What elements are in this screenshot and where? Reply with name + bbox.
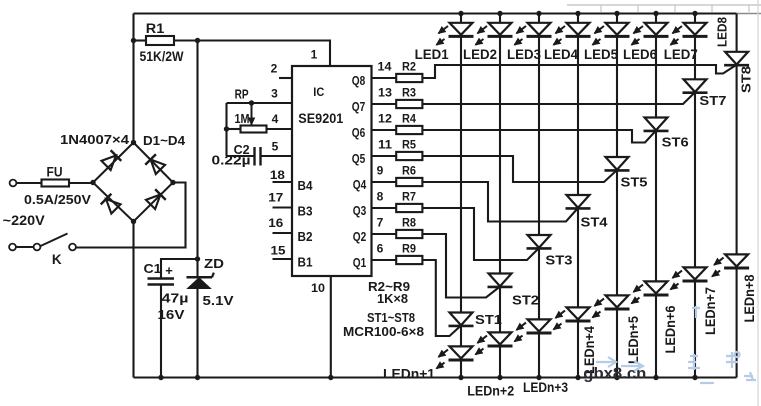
svg-text:RP: RP [235, 88, 249, 102]
svg-text:LED4: LED4 [544, 47, 578, 62]
junction dot bridge left vertex [90, 180, 95, 185]
junction dot bridge top vertex [131, 140, 136, 145]
wire LEDn+1 cathode to ground rail [460, 360, 462, 378]
svg-text:R5: R5 [402, 138, 416, 152]
svg-text:ST5: ST5 [621, 175, 648, 190]
junction dot ground rail LEDn+4 [575, 375, 580, 380]
junction dot ground rail LEDn+6 [653, 375, 658, 380]
wire R3 to ST7 gate [422, 92, 695, 104]
svg-text:6: 6 [377, 242, 384, 256]
wire left border to R1 [134, 39, 147, 41]
svg-text:gbx8.cn: gbx8.cn [583, 366, 646, 383]
fuse FU [42, 182, 94, 184]
wire R4 to ST6 gate [422, 130, 656, 143]
svg-text:2: 2 [271, 61, 278, 75]
svg-text:7: 7 [377, 216, 384, 230]
wire LED6 cathode down to ST6 [655, 36, 657, 117]
wire ST3 cathode down to LEDn+3 [538, 248, 540, 319]
wire bridge bottom vertex to ground rail [132, 222, 134, 378]
wire R2 to ST8 gate [422, 65, 736, 78]
wire between switch terminals [16, 246, 34, 248]
svg-text:B4: B4 [298, 179, 313, 193]
thyristor ST8 [725, 52, 748, 65]
LED LED5 [606, 23, 629, 35]
junction dot ZD ground [195, 375, 200, 380]
svg-text:Q3: Q3 [353, 204, 367, 218]
wire LED1 anode lead [460, 14, 462, 23]
wire supply node down to ZD [196, 41, 198, 278]
wire R1 to supply node [174, 39, 198, 41]
resistor R4 [396, 126, 422, 134]
wire pin 5 row C2 to IC [261, 155, 293, 157]
wire R6 to ST4 gate [422, 182, 578, 222]
svg-text:12: 12 [378, 112, 392, 126]
wire top positive rail [134, 12, 737, 14]
wire LED5 cathode down to ST5 [616, 36, 618, 157]
zener diode ZD [188, 278, 211, 289]
svg-text:ZD: ZD [204, 256, 224, 271]
svg-text:C1: C1 [144, 261, 162, 276]
pin 6 stub to R9 [372, 259, 397, 261]
svg-text:ST6: ST6 [662, 135, 689, 150]
junction dot ground rail LEDn+5 [614, 375, 619, 380]
junction dot C1 ground [158, 375, 163, 380]
svg-text:LED6: LED6 [623, 47, 657, 62]
diode D4 (bridge lower-right) [146, 195, 160, 209]
svg-text:17: 17 [268, 190, 283, 204]
svg-text:LEDn+2: LEDn+2 [467, 384, 514, 399]
wire R8 to ST2 gate [422, 234, 500, 298]
svg-text:1: 1 [311, 48, 318, 62]
svg-text:LEDn+7: LEDn+7 [703, 287, 718, 335]
svg-text:LED7: LED7 [664, 47, 698, 62]
resistor R1 [146, 36, 174, 45]
junction dot top rail LED1 [458, 11, 463, 16]
wire ZD bottom lead [196, 289, 198, 378]
svg-text:Q7: Q7 [352, 100, 366, 114]
resistor R7 [396, 204, 422, 212]
wire LEDn+6 cathode to ground rail [655, 295, 657, 378]
pin 14 stub to R2 [372, 77, 397, 79]
wire LED4 anode lead [577, 14, 579, 23]
svg-text:R4: R4 [402, 112, 416, 126]
svg-text:LEDn+5: LEDn+5 [626, 316, 641, 364]
svg-text:ST1: ST1 [475, 312, 502, 327]
wire ST7 cathode down to LEDn+7 [694, 93, 696, 268]
pin 17 stub [273, 206, 293, 208]
thyristor ST5 [606, 157, 629, 170]
pin 18 stub [273, 181, 293, 183]
LED LEDn+4 [567, 307, 590, 319]
LED LEDn+5 [606, 295, 629, 307]
pin 13 stub to R3 [372, 103, 397, 105]
wire ST6 cathode down to LEDn+6 [655, 131, 657, 282]
svg-text:~220V: ~220V [3, 212, 46, 228]
junction dot RP wiper top [249, 100, 254, 105]
svg-text:5: 5 [272, 140, 279, 154]
svg-text:10: 10 [311, 281, 325, 295]
wire C1 bottom lead [160, 285, 162, 378]
wire LEDn+5 cathode to ground rail [616, 309, 618, 378]
svg-text:R7: R7 [402, 190, 416, 204]
LED LED6 [645, 23, 668, 35]
svg-text:1N4007×4: 1N4007×4 [60, 132, 130, 147]
wire bottom ground rail [134, 376, 737, 378]
svg-text:LED8: LED8 [715, 17, 730, 47]
capacitor C1 plates [148, 277, 175, 280]
svg-text:3: 3 [271, 87, 278, 101]
junction dot RP left branch [224, 126, 229, 131]
LED LEDn+2 [489, 332, 512, 344]
svg-text:ST1~ST8: ST1~ST8 [367, 310, 415, 325]
svg-text:IC: IC [313, 85, 324, 99]
terminal circle switch mid [34, 244, 41, 251]
resistor R5 [396, 152, 422, 160]
junction dot top rail LED5 [614, 11, 619, 16]
pin 12 stub to R4 [372, 129, 397, 131]
svg-text:8: 8 [377, 190, 384, 204]
svg-text:ST8: ST8 [739, 66, 754, 93]
svg-text:ST3: ST3 [545, 253, 572, 268]
wire LEDn+4 cathode to ground rail [577, 321, 579, 378]
svg-text:LED2: LED2 [463, 47, 497, 62]
thyristor ST6 [645, 118, 668, 131]
svg-text:Q8: Q8 [352, 74, 366, 88]
junction dot top rail LED4 [575, 11, 580, 16]
wire LED7 cathode down to ST7 [694, 36, 696, 79]
wire LED3 anode lead [538, 14, 540, 23]
svg-text:0.5A/250V: 0.5A/250V [24, 192, 91, 207]
op-amp IC box SE9201 [292, 66, 372, 276]
junction dot ground rail LEDn+2 [497, 375, 502, 380]
terminal circle AC line input [10, 180, 17, 187]
svg-text:D1~D4: D1~D4 [143, 133, 186, 148]
junction dot ground rail LEDn+1 [458, 375, 463, 380]
junction dot ground rail LEDn+7 [692, 375, 697, 380]
svg-text:1M: 1M [235, 112, 250, 126]
junction dot ZD top node [195, 256, 200, 261]
wire LEDn+7 cathode to ground rail [694, 281, 696, 378]
wire LED3 cathode down to ST3 [538, 36, 540, 235]
svg-text:47µ: 47µ [162, 291, 189, 306]
svg-text:B2: B2 [298, 230, 313, 244]
junction dot top rail LED3 [536, 11, 541, 16]
resistor R3 [396, 100, 422, 108]
pin 2 stub [279, 77, 292, 79]
svg-text:Q1: Q1 [353, 256, 367, 270]
resistor R8 [396, 230, 422, 238]
svg-text:R6: R6 [402, 164, 416, 178]
pin 7 stub to R8 [372, 233, 397, 235]
svg-text:K: K [52, 252, 62, 267]
capacitor C2 plates [253, 147, 255, 166]
wire AC terminal to fuse [17, 182, 42, 184]
svg-text:R9: R9 [402, 242, 416, 256]
svg-text:R1: R1 [146, 21, 165, 36]
svg-text:LEDn+8: LEDn+8 [742, 274, 757, 322]
svg-text:9: 9 [377, 164, 384, 178]
LED LEDn+7 [684, 267, 707, 279]
wire channel-8 from corner down to ST8 [736, 14, 738, 52]
junction dot top rail LED2 [497, 11, 502, 16]
svg-text:LED5: LED5 [584, 47, 618, 62]
wire C2 left lead [227, 155, 255, 157]
wire ST4 cathode down to LEDn+4 [577, 208, 579, 307]
svg-text:0.22µ: 0.22µ [212, 153, 251, 168]
wire LED6 anode lead [655, 14, 657, 23]
terminal circle switch left [9, 244, 16, 251]
junction dot ground rail LEDn+3 [536, 375, 541, 380]
junction dot top rail LED6 [653, 11, 658, 16]
wire IC pin 10 to ground [330, 276, 332, 378]
wire R7 to ST3 gate [422, 208, 539, 260]
svg-text:R8: R8 [402, 216, 416, 230]
thyristor ST3 [528, 235, 551, 248]
junction dot bridge bottom vertex [131, 219, 136, 224]
junction dot top rail LED7 [692, 11, 697, 16]
diode D3 (bridge lower-left) [106, 199, 120, 213]
diode D2 (bridge upper-right) [151, 160, 165, 175]
wire RP/C2 shared branch [225, 103, 227, 156]
wire LED4 cathode down to ST4 [577, 36, 579, 195]
pin 15 stub [273, 258, 293, 260]
svg-text:LEDn+1: LEDn+1 [383, 367, 436, 382]
junction dot left border / R1 row [131, 38, 136, 43]
svg-text:ST7: ST7 [699, 93, 726, 108]
svg-text:LED3: LED3 [507, 47, 541, 62]
diode D1 (bridge upper-left) [101, 156, 115, 170]
svg-text:14: 14 [378, 60, 392, 74]
wire LED1 cathode down to ST1 [460, 36, 462, 312]
wire bridge diamond [93, 143, 173, 222]
svg-text:5.1V: 5.1V [203, 293, 234, 308]
svg-text:Q6: Q6 [352, 126, 366, 140]
svg-text:11: 11 [378, 138, 392, 152]
wire ST2 cathode down to LEDn+2 [499, 287, 501, 333]
terminal circle switch right [69, 244, 76, 251]
LED LED7 [684, 23, 707, 35]
wire RP left lead [227, 128, 241, 130]
svg-text:18: 18 [270, 168, 285, 182]
pin 16 stub [273, 232, 293, 234]
wire pin 4 row [267, 128, 293, 130]
wire LEDn+8 cathode to ground rail [736, 268, 738, 378]
potentiometer RP wiper arrow [251, 103, 253, 125]
svg-text:13: 13 [378, 86, 392, 100]
wire R5 to ST5 gate [422, 156, 617, 182]
pin 8 stub to R7 [372, 207, 397, 209]
thyristor ST7 [684, 79, 707, 92]
thyristor ST1 [450, 313, 473, 326]
wire LED7 anode lead [694, 14, 696, 23]
LED LED2 [489, 23, 512, 35]
resistor R6 [396, 178, 422, 186]
LED LEDn+1 [450, 346, 473, 358]
svg-text:Q4: Q4 [353, 178, 367, 192]
svg-text:LEDn+3: LEDn+3 [523, 380, 568, 395]
svg-text:B1: B1 [298, 256, 313, 270]
wire ST5 cathode down to LEDn+5 [616, 170, 618, 295]
svg-text:B3: B3 [298, 205, 313, 219]
pin 9 stub to R6 [372, 181, 397, 183]
wire left border down to bridge top vertex [132, 14, 134, 143]
wire C1 top lead [161, 259, 198, 279]
wire switch to bridge right vertex [76, 183, 186, 248]
potentiometer RP 1M [241, 126, 267, 133]
svg-text:Q2: Q2 [353, 230, 367, 244]
junction dot bridge right vertex [170, 180, 175, 185]
svg-text:MCR100-6×8: MCR100-6×8 [343, 324, 424, 339]
svg-text:R3: R3 [402, 86, 416, 100]
junction dot pin 10 ground [328, 375, 333, 380]
svg-text:16: 16 [268, 216, 283, 230]
LED LED1 [450, 23, 473, 35]
svg-text:15: 15 [271, 243, 286, 257]
wire ST1 cathode down to LEDn+1 [460, 326, 462, 347]
wire LED5 anode lead [616, 14, 618, 23]
LED LEDn+6 [645, 281, 668, 293]
LED LED3 [528, 23, 551, 35]
wire LEDn+3 cathode to ground rail [538, 333, 540, 378]
svg-text:SE9201: SE9201 [298, 111, 343, 126]
svg-text:ST4: ST4 [581, 215, 609, 230]
LED LEDn+3 [528, 319, 551, 331]
svg-text:4: 4 [272, 112, 279, 126]
svg-text:51K/2W: 51K/2W [140, 49, 184, 64]
resistor R2 [396, 74, 422, 82]
junction dot supply node [195, 38, 200, 43]
resistor R9 [396, 256, 422, 264]
wire LEDn+2 cathode to ground rail [499, 346, 501, 378]
wire R9 to ST1 gate [422, 260, 461, 336]
pin 11 stub to R5 [372, 155, 397, 157]
svg-text:FU: FU [47, 165, 63, 180]
svg-text:LED1: LED1 [415, 47, 449, 62]
wire ST8 cathode down to LEDn+8 [736, 65, 738, 254]
thyristor ST4 [567, 195, 590, 208]
svg-text:LEDn+6: LEDn+6 [663, 305, 678, 353]
LED LEDn+8 [725, 254, 748, 266]
thyristor ST2 [489, 274, 512, 287]
svg-text:1K×8: 1K×8 [377, 291, 408, 306]
wire supply node to IC pin 1 [198, 41, 331, 67]
switch K lever [41, 234, 68, 247]
wire LED2 anode lead [499, 14, 501, 23]
wire LED2 cathode down to ST2 [499, 36, 501, 273]
LED LED4 [567, 23, 590, 35]
svg-text:ST2: ST2 [512, 293, 539, 308]
svg-text:Q5: Q5 [352, 152, 366, 166]
wire pin 3 row [227, 102, 293, 104]
svg-text:+: + [165, 263, 173, 278]
